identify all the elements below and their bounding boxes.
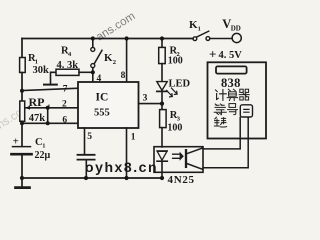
node R1/RP1/pin7 junction bbox=[20, 89, 24, 93]
wire key to collector bbox=[203, 118, 240, 149]
svg-text:4N25: 4N25 bbox=[168, 174, 195, 186]
wire pin 3 bbox=[139, 103, 163, 105]
wire pin 1 bbox=[126, 128, 128, 178]
resistor R4 bbox=[44, 46, 93, 85]
wire tie pins 2-6 bbox=[47, 108, 49, 124]
svg-text:3: 3 bbox=[143, 94, 148, 104]
node tie top bbox=[46, 106, 50, 110]
svg-text:2: 2 bbox=[62, 99, 67, 109]
wire pin 7 bbox=[22, 88, 79, 90]
node VDD terminal bbox=[222, 17, 241, 43]
838 calculator box bbox=[208, 62, 267, 138]
node ground 4N25 bbox=[160, 176, 164, 180]
wire R3 to 4N25 bbox=[161, 128, 163, 147]
wire bottom ground rail bbox=[22, 177, 162, 179]
wire K1 to VDD bbox=[210, 38, 232, 40]
svg-text:8: 8 bbox=[121, 71, 126, 81]
battery bar inside 838 box bbox=[216, 66, 247, 73]
svg-text:1: 1 bbox=[42, 142, 45, 149]
svg-text:100: 100 bbox=[168, 56, 183, 67]
svg-text:DD: DD bbox=[231, 24, 241, 32]
capacitor C1 bbox=[12, 137, 51, 161]
resistor R3 bbox=[160, 110, 183, 134]
svg-text:+: + bbox=[209, 47, 216, 62]
label CJK hao (号) bbox=[228, 104, 238, 115]
svg-text:30k: 30k bbox=[33, 65, 50, 76]
svg-text:7: 7 bbox=[63, 84, 68, 94]
wire C1 to ground rail bbox=[21, 156, 23, 179]
node top rail pin8 bbox=[125, 36, 129, 40]
node top rail R2 bbox=[160, 36, 164, 40]
resistor RP1 (potentiometer body) bbox=[20, 95, 51, 124]
watermark pink diagonal top bbox=[94, 10, 137, 43]
label CJK jian (键) bbox=[214, 117, 226, 127]
resistor R1 bbox=[20, 53, 49, 76]
node ground pin5 bbox=[84, 176, 88, 180]
svg-text:5: 5 bbox=[87, 132, 92, 142]
svg-text:2: 2 bbox=[113, 59, 116, 66]
label CJK ji (计) bbox=[216, 90, 227, 101]
wire left rail to C1 bbox=[21, 121, 23, 146]
watermark pink diagonal left bbox=[0, 107, 25, 132]
svg-text:1: 1 bbox=[131, 133, 136, 143]
svg-text:3: 3 bbox=[177, 115, 181, 122]
svg-text:47k: 47k bbox=[29, 113, 46, 124]
equals key symbol bbox=[240, 105, 252, 117]
wire pin 6 bbox=[22, 122, 79, 124]
svg-text:22μ: 22μ bbox=[35, 150, 51, 161]
wire pin 2 with wiper arrow bbox=[25, 106, 78, 110]
node ground pin1 bbox=[124, 176, 128, 180]
wire key to emitter bbox=[203, 118, 248, 168]
svg-text:RP: RP bbox=[29, 95, 45, 109]
label CJK suan (算) bbox=[227, 89, 237, 100]
ground bbox=[16, 178, 30, 188]
svg-text:4. 3k: 4. 3k bbox=[57, 60, 79, 71]
svg-text:100: 100 bbox=[167, 123, 182, 134]
wire pin 5 bbox=[84, 128, 86, 154]
svg-text:4. 5V: 4. 5V bbox=[219, 50, 243, 61]
capacitor C2 bbox=[78, 155, 95, 160]
wire top rail bbox=[22, 38, 193, 40]
node ground rail left bbox=[20, 176, 24, 180]
label CJK qi (器) bbox=[239, 89, 249, 100]
svg-text:555: 555 bbox=[94, 108, 110, 119]
svg-text:4: 4 bbox=[68, 51, 72, 58]
svg-text:oyhx8.cn: oyhx8.cn bbox=[85, 159, 158, 175]
wire pin 8 bbox=[126, 39, 128, 83]
wire left rail upper bbox=[21, 39, 23, 58]
svg-text:6: 6 bbox=[62, 116, 67, 126]
svg-text:838: 838 bbox=[221, 76, 241, 90]
svg-text:IC: IC bbox=[96, 91, 109, 103]
LED D1 bbox=[157, 78, 191, 97]
optocoupler 4N25 bbox=[154, 147, 203, 186]
node pin3 LED column bbox=[160, 102, 164, 106]
resistor R2 bbox=[159, 39, 183, 82]
label CJK deng (等) bbox=[214, 104, 226, 115]
op-amp U1 IC 555 bbox=[78, 82, 139, 128]
node R4/K2/pin4 bbox=[91, 70, 95, 74]
node tie bottom bbox=[46, 121, 50, 125]
node RP1 bottom / pin6 bbox=[20, 121, 24, 125]
svg-text:1: 1 bbox=[198, 26, 201, 33]
wire LED to pin3 node bbox=[161, 91, 163, 109]
wire C2 to ground rail bbox=[85, 161, 87, 179]
wire left rail mid bbox=[21, 73, 23, 102]
switch K2 bbox=[91, 39, 116, 83]
switch K1 bbox=[189, 19, 210, 40]
svg-text:LED: LED bbox=[169, 78, 191, 89]
svg-text:K: K bbox=[104, 52, 113, 64]
node top rail K2 bbox=[91, 36, 95, 40]
